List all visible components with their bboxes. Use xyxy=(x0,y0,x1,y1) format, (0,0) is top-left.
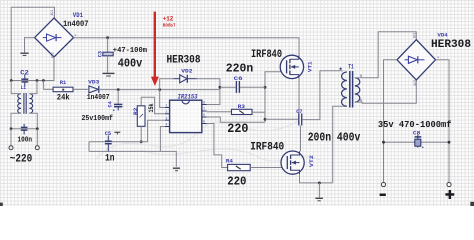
wire VD2 to VB riser xyxy=(197,79,220,105)
terminal right xyxy=(35,129,39,150)
wire pin1 riser xyxy=(160,90,165,108)
node xyxy=(264,86,267,89)
diode VD3 xyxy=(89,86,99,93)
svg-text:35v 470-1000mf: 35v 470-1000mf xyxy=(378,119,452,130)
svg-text:IR2153: IR2153 xyxy=(178,93,198,100)
wire R4 to VT2 gate xyxy=(250,167,282,169)
svg-text:вольт: вольт xyxy=(163,23,176,29)
wire line B (COM net) xyxy=(89,151,176,166)
svg-text:C4: C4 xyxy=(107,101,114,108)
wire T1 secondary top xyxy=(355,32,417,78)
svg-text:400v: 400v xyxy=(118,56,143,70)
node xyxy=(382,141,385,144)
stub T-bar xyxy=(20,53,28,55)
capacitor C3 electrolytic xyxy=(103,38,113,73)
svg-text:100n: 100n xyxy=(18,137,33,145)
wire R1-VD3 xyxy=(73,88,88,90)
pin 7 xyxy=(202,108,207,112)
ground (VT2) xyxy=(315,198,323,201)
bridge rectifier VD4 xyxy=(397,32,439,85)
terminal minus xyxy=(381,182,385,186)
wire T1 primary bottom xyxy=(333,106,347,183)
svg-text:220: 220 xyxy=(227,122,248,136)
capacitor C8 electrolytic xyxy=(415,135,425,151)
wire line A left drop xyxy=(88,142,90,152)
capacitor C4 electrolytic 25v100mf xyxy=(113,90,123,114)
node xyxy=(448,141,451,144)
red annotation arrow xyxy=(151,12,159,86)
wire bridge left vertex stub xyxy=(25,38,35,53)
diode VD2 xyxy=(174,75,197,83)
svg-text:VT1: VT1 xyxy=(307,61,313,72)
pin 6 xyxy=(202,114,207,118)
svg-text:1n: 1n xyxy=(105,153,115,164)
capacitor C2 xyxy=(21,74,28,87)
svg-text:R4: R4 xyxy=(226,157,234,164)
wire C7 to VT2 drain xyxy=(300,126,302,152)
wire R2 bottom xyxy=(140,126,142,142)
wire T1 secondary bottom xyxy=(355,80,417,103)
transformer T1 xyxy=(342,71,360,108)
wire VT2 source rail xyxy=(300,174,333,183)
svg-text:C6: C6 xyxy=(234,75,244,82)
svg-text:15k: 15k xyxy=(148,103,155,112)
ground (C3) xyxy=(103,73,115,76)
wire R2 top to pin2 xyxy=(141,97,165,114)
node xyxy=(264,118,267,121)
C5 top tick xyxy=(114,132,120,134)
svg-text:C5: C5 xyxy=(105,130,112,137)
svg-text:3: 3 xyxy=(165,117,167,121)
svg-text:C3: C3 xyxy=(96,51,103,58)
svg-text:IRF840: IRF840 xyxy=(250,141,284,153)
wire pin4 drop xyxy=(160,127,164,152)
svg-text:IRF840: IRF840 xyxy=(251,49,282,61)
svg-text:8: 8 xyxy=(203,102,205,106)
svg-text:T1: T1 xyxy=(348,64,354,71)
svg-text:R3: R3 xyxy=(238,103,246,110)
svg-text:HER308: HER308 xyxy=(167,55,201,67)
wire VT1 source / midpoint xyxy=(298,79,300,114)
wire ground drop xyxy=(318,183,320,198)
terminal plus xyxy=(447,182,451,186)
capacitor C6 xyxy=(220,81,265,93)
svg-text:220n: 220n xyxy=(226,62,254,76)
label minus xyxy=(380,194,386,197)
svg-text:C2: C2 xyxy=(20,70,29,77)
node xyxy=(158,88,161,91)
svg-text:1: 1 xyxy=(165,105,167,109)
svg-text:25v100mf: 25v100mf xyxy=(82,115,114,123)
svg-text:VD3: VD3 xyxy=(88,79,100,86)
wire C7 right to T1 riser xyxy=(302,71,343,120)
svg-text:200n 400v: 200n 400v xyxy=(308,130,361,144)
svg-text:VD2: VD2 xyxy=(181,68,193,75)
svg-text:C7: C7 xyxy=(296,108,302,115)
corner mark bottom-left xyxy=(0,203,3,206)
svg-text:AC1: AC1 xyxy=(50,10,54,16)
wire VS net xyxy=(207,117,265,122)
node xyxy=(42,79,45,82)
wire main HV rail xyxy=(74,38,300,58)
svg-text:AC1: AC1 xyxy=(413,32,417,38)
pin 8 xyxy=(202,102,207,106)
capacitor C5 xyxy=(105,135,112,151)
corner mark bottom-right xyxy=(470,202,474,206)
node xyxy=(318,182,321,185)
pin 2 xyxy=(165,111,170,115)
svg-text:~220: ~220 xyxy=(10,154,33,166)
wire R3 to gate riser xyxy=(252,111,265,113)
node xyxy=(219,86,222,89)
phase dot T1 xyxy=(340,68,342,70)
svg-text:VT2: VT2 xyxy=(309,155,315,167)
wire HO to R3 xyxy=(207,111,232,113)
node xyxy=(117,88,120,91)
pin 4 xyxy=(165,124,170,128)
node xyxy=(36,79,39,82)
node xyxy=(140,140,143,143)
inductor L1 (common-mode choke) xyxy=(18,93,33,114)
wire L1 leads xyxy=(11,81,37,129)
bridge rectifier VD1 xyxy=(35,10,77,58)
wire DC plus xyxy=(436,60,450,183)
wire C7 left xyxy=(265,118,298,120)
svg-text:N: N xyxy=(360,74,362,78)
svg-text:R2: R2 xyxy=(133,108,139,116)
svg-text:C8: C8 xyxy=(413,129,421,136)
svg-text:6: 6 xyxy=(203,114,205,118)
wire bridge bottom to AC line xyxy=(43,57,54,81)
capacitor C7 xyxy=(299,114,302,126)
pin 5 xyxy=(202,121,207,125)
IC U1 IR2153 xyxy=(170,100,202,132)
svg-text:4: 4 xyxy=(165,124,167,128)
wire mains bottom xyxy=(11,128,37,130)
resistor R2 xyxy=(137,106,145,127)
label plus xyxy=(445,190,454,199)
pin 3 xyxy=(165,117,170,121)
resistor R4 xyxy=(228,164,251,170)
ground (under IC) xyxy=(173,168,180,171)
wire output cap rail xyxy=(384,141,450,143)
svg-text:1n4007: 1n4007 xyxy=(87,94,110,102)
capacitor 100n xyxy=(21,124,28,134)
wire LO to R4 xyxy=(207,124,228,168)
svg-text:220: 220 xyxy=(227,174,246,188)
watermark xyxy=(95,120,320,161)
wire VCC net xyxy=(99,89,220,91)
node xyxy=(106,36,109,39)
svg-text:VD4: VD4 xyxy=(437,31,448,38)
tiny winding marks xyxy=(343,68,362,103)
pin 1 xyxy=(165,105,170,109)
wire line A (CT net) xyxy=(89,120,165,142)
svg-text:7: 7 xyxy=(203,108,205,112)
wire DC minus xyxy=(384,60,398,183)
wire gate riser VT1 xyxy=(265,72,281,122)
svg-text:2: 2 xyxy=(165,111,167,115)
terminal left xyxy=(9,129,13,150)
resistor R1 xyxy=(53,87,73,92)
wire R1 feed xyxy=(43,81,53,90)
svg-text:L1: L1 xyxy=(21,84,27,91)
node xyxy=(10,79,13,82)
svg-text:.: . xyxy=(343,68,345,72)
wire AC horizontal xyxy=(11,80,43,82)
diode VD2 bypass riser xyxy=(160,79,174,90)
svg-text:N: N xyxy=(360,99,362,103)
resistor R3 xyxy=(232,109,253,114)
svg-text:24k: 24k xyxy=(57,94,70,102)
svg-text:HER308: HER308 xyxy=(431,39,471,51)
svg-text:1n4007: 1n4007 xyxy=(63,19,89,29)
transistor VT2 IRF840 xyxy=(281,151,304,174)
node xyxy=(10,127,13,130)
svg-text:5: 5 xyxy=(203,121,205,125)
svg-text:+47-100m: +47-100m xyxy=(113,47,148,55)
svg-text:R1: R1 xyxy=(60,79,67,86)
node xyxy=(36,127,39,130)
transistor VT1 IRF840 xyxy=(280,55,303,78)
svg-text:AC2: AC2 xyxy=(413,80,417,86)
wire top-left loop xyxy=(11,7,54,80)
